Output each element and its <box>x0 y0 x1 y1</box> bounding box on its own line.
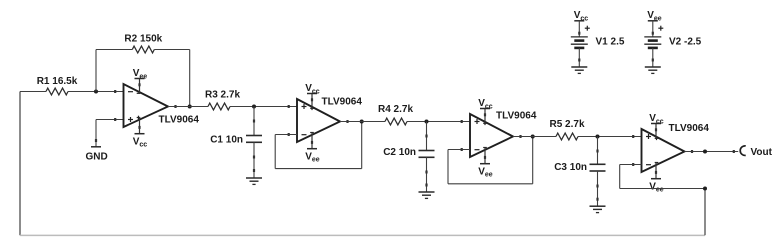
ground below V2 <box>645 66 661 68</box>
op-amp U2 negative supply pin Vee <box>305 132 320 164</box>
wire U4 feedback loop <box>620 165 705 189</box>
ground below V1 <box>571 66 587 68</box>
wire bottom rail <box>20 234 705 236</box>
node I junction U4 output/feedback <box>703 150 707 154</box>
ground below C2 <box>419 191 435 193</box>
capacitor C1 10n <box>246 107 262 143</box>
svg-text:GND: GND <box>86 151 108 162</box>
node C junction R3/C1 <box>252 105 256 109</box>
svg-text:V1 2.5: V1 2.5 <box>596 37 625 48</box>
ground GND pin at U1 non-inverting input <box>86 147 108 163</box>
op-amp U1 negative supply pin Vee <box>133 68 148 94</box>
wire U2 feedback loop <box>275 122 362 169</box>
power rail pin Vcc above V1 <box>574 10 589 22</box>
wire right vertical from output node down to bottom rail <box>704 189 706 236</box>
op-amp U2 input and output pin ends <box>288 105 349 136</box>
svg-text:V2 -2.5: V2 -2.5 <box>669 37 702 48</box>
op-amp U1 TLV9064 <box>124 84 169 127</box>
node F junction U3 feedback/output <box>531 135 535 139</box>
wire R2 right vertical to U1 output <box>189 50 191 107</box>
wire U1 output to U2 input with R3 <box>168 106 297 108</box>
op-amp U4 TLV9064 <box>642 129 685 172</box>
op-amp U4 input and output pin ends <box>632 135 693 166</box>
node G junction R5/C3 <box>596 135 600 139</box>
op-amp U2 positive supply pin Vcc <box>305 83 320 109</box>
resistor R5 2.7k <box>556 133 578 140</box>
node B junction R2/U1 output <box>188 105 192 109</box>
wire U2 output to U3 input with R4 <box>340 121 470 123</box>
op-amp U3 positive supply pin Vcc <box>478 98 493 124</box>
node H junction U4 feedback/bottom rail <box>703 187 707 191</box>
wire C3 to ground <box>596 171 598 206</box>
svg-text:R3 2.7k: R3 2.7k <box>205 90 240 101</box>
power rail pin Vee above V2 <box>647 10 662 22</box>
op-amp U2 TLV9064 <box>297 99 340 142</box>
svg-text:Vout: Vout <box>751 147 773 158</box>
op-amp U4 negative supply pin Vee <box>649 162 664 194</box>
svg-text:TLV9064: TLV9064 <box>669 123 710 134</box>
resistor R3 2.7k <box>208 103 230 110</box>
svg-text:R5 2.7k: R5 2.7k <box>549 119 584 130</box>
op-amp U1 input and output pin ends <box>114 90 176 121</box>
svg-text:C2 10n: C2 10n <box>383 147 416 158</box>
svg-text:R1 16.5k: R1 16.5k <box>37 76 78 87</box>
svg-text:TLV9064: TLV9064 <box>496 110 537 121</box>
resistor R4 2.7k <box>385 118 407 125</box>
op-amp U3 input and output pin ends <box>461 120 522 151</box>
ground below C3 <box>590 205 606 207</box>
wire U3 feedback loop <box>448 137 533 184</box>
output connector Vout <box>740 146 772 158</box>
wire R2 left vertical <box>95 50 97 92</box>
resistor R1 16.5k <box>20 88 124 95</box>
svg-text:TLV9064: TLV9064 <box>322 96 363 107</box>
op-amp U4 positive supply pin Vcc <box>649 113 664 139</box>
capacitor C2 10n <box>419 122 435 158</box>
node A junction R1/R2 on inverting input <box>94 90 98 94</box>
node D junction U2 feedback/output <box>360 120 364 124</box>
op-amp U3 TLV9064 <box>470 114 513 157</box>
svg-text:C3 10n: C3 10n <box>554 162 587 173</box>
resistor R2 150k feedback <box>96 46 190 53</box>
node E junction R4/C2 <box>425 120 429 124</box>
voltage source V2 <box>644 21 663 67</box>
wire U3 output to U4 input with R5 <box>513 136 642 138</box>
op-amp U1 positive supply pin Vcc <box>133 117 148 149</box>
svg-text:C1 10n: C1 10n <box>210 134 243 145</box>
wire C1 to ground <box>253 142 255 178</box>
wire U1 non-inverting input to GND pin <box>95 120 124 147</box>
op-amp U3 negative supply pin Vee <box>478 147 493 179</box>
ground below C1 <box>246 177 262 179</box>
capacitor C3 10n <box>590 137 606 172</box>
wire U4 output to Vout <box>685 150 739 153</box>
svg-text:R4 2.7k: R4 2.7k <box>378 104 413 115</box>
svg-text:TLV9064: TLV9064 <box>159 115 200 126</box>
svg-text:R2 150k: R2 150k <box>124 34 162 45</box>
voltage source V1 <box>571 21 590 67</box>
wire C2 to ground <box>425 157 427 192</box>
wire left input vertical from R1 down to bottom rail <box>19 92 21 236</box>
